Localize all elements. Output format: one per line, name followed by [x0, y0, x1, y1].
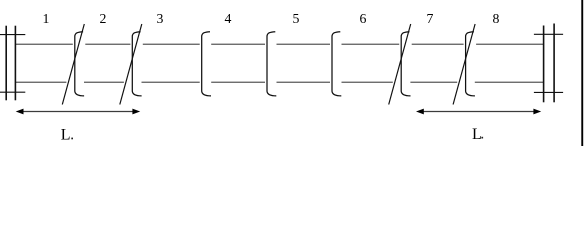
joint J4 bracket [267, 32, 276, 96]
svg-text:2: 2 [100, 11, 107, 26]
joint J6 bracket [401, 32, 410, 96]
joint J7 bracket [466, 32, 475, 96]
wire top 1 [15, 43, 72, 45]
joint J1 bracket [75, 32, 84, 96]
svg-text:3: 3 [157, 11, 164, 26]
wire bottom 8 [475, 81, 544, 83]
svg-text:1: 1 [43, 11, 50, 26]
wire bottom 5 [277, 81, 331, 83]
wire top 8 [476, 43, 544, 45]
wire bottom 2 [84, 81, 124, 83]
wire bottom 6 [342, 81, 393, 83]
joint J5 bracket [332, 32, 341, 96]
wire top 2 [85, 43, 130, 45]
wire bottom 3 [142, 81, 200, 83]
wire top 5 [277, 43, 331, 45]
joint J6 jumper diagonal [389, 24, 411, 105]
svg-text:8: 8 [493, 11, 500, 26]
joint J3 bracket [202, 32, 211, 96]
svg-text:L: L [472, 126, 482, 143]
wire top 4 [211, 43, 265, 45]
svg-text:5: 5 [293, 11, 300, 26]
wire top 6 [342, 43, 400, 45]
joint J2 bracket [132, 32, 141, 96]
wire top 7 [412, 43, 464, 45]
joint J7 jumper diagonal [453, 24, 475, 105]
right terminal double bar [534, 24, 563, 103]
rail line top: conductor segments [15, 44, 543, 82]
svg-text:4: 4 [225, 11, 232, 26]
wire top 3 [143, 43, 200, 45]
left terminal double bar [0, 26, 25, 101]
wire bottom 7 [410, 81, 457, 83]
svg-text:7: 7 [427, 11, 434, 26]
dimension arrow L right [416, 109, 541, 115]
wire bottom 1 [15, 81, 66, 83]
page right border [581, 0, 583, 146]
section numbers [43, 11, 500, 26]
dimension arrow L left [16, 109, 141, 115]
wire bottom 4 [211, 81, 265, 83]
joint J2 jumper diagonal [120, 24, 142, 105]
svg-text:6: 6 [360, 11, 367, 26]
joint J1 jumper diagonal [62, 24, 84, 105]
svg-text:L: L [61, 126, 71, 143]
